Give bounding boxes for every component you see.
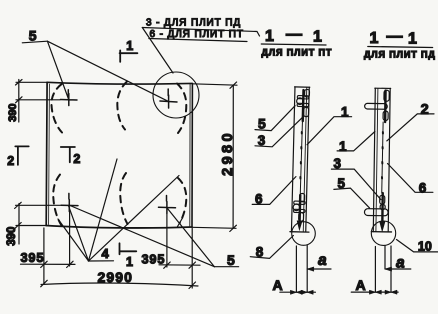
section 1 anchor rod — [302, 90, 305, 121]
leader 5 to top-left loop — [47, 41, 68, 99]
section header 1-1 PD underline — [368, 47, 433, 48]
fan leader long right — [89, 176, 180, 262]
svg-text:1: 1 — [126, 39, 133, 53]
section 1 top loop bar 1 — [297, 96, 308, 99]
section 2 detail circle — [371, 221, 395, 245]
dim 2980 line — [232, 85, 234, 228]
dashed arc bottom-right — [178, 178, 186, 224]
plate right edge inner — [189, 84, 191, 226]
section 2 left inner edge — [376, 89, 378, 232]
extension line bottom-right to 2980 — [192, 227, 236, 228]
svg-text:5: 5 — [227, 252, 235, 268]
section 1 bottom loop hook lower — [299, 213, 304, 222]
label 5 right underline — [214, 266, 238, 268]
loop mark cross bottom-right — [159, 196, 176, 214]
svg-text:5: 5 — [258, 116, 266, 132]
dim 395 left line — [21, 263, 76, 265]
section 2 rod arrow — [380, 221, 385, 231]
svg-text:5: 5 — [29, 28, 37, 44]
fan leader short left — [58, 219, 89, 261]
dashed arc bottom-center — [120, 173, 127, 224]
svg-text:2: 2 — [7, 154, 14, 168]
svg-text:А: А — [356, 277, 366, 293]
leader 5 to top-right loop — [47, 41, 168, 101]
dashed arc bottom-left — [53, 175, 62, 228]
annotation underline 1 — [142, 28, 259, 37]
section 2 bottom hairpin loop — [364, 209, 388, 216]
section 2 bottom edge — [371, 231, 391, 233]
svg-text:2: 2 — [73, 152, 80, 166]
leader bottom-left loop to label 5 right — [70, 206, 214, 267]
svg-text:6: 6 — [419, 180, 427, 195]
dim 390 top tick marks — [16, 80, 23, 103]
loop mark cross top-left — [61, 90, 78, 106]
section 1 top loop bar 2 — [297, 103, 308, 106]
dim 2990 ticks — [41, 280, 196, 288]
detail circle around top-right loop — [153, 72, 199, 118]
dim 390 bottom-left dim line — [18, 204, 20, 245]
extension line below bottom-right loop — [166, 214, 168, 267]
svg-text:—: — — [387, 28, 403, 45]
plate left edge outer — [45, 82, 48, 225]
section 2 dim a line — [385, 268, 411, 270]
section 1 extension left below — [295, 246, 297, 292]
section 1 rod dots — [300, 132, 302, 178]
dim 2990 line — [41, 283, 198, 286]
section 1 dim A arrows — [290, 290, 302, 294]
section 1 right outer edge — [306, 87, 310, 232]
svg-text:1: 1 — [339, 139, 347, 154]
section 2 extension left below — [374, 247, 376, 293]
loop mark cross top-right — [160, 89, 177, 108]
section 2 top hairpin loop — [365, 103, 388, 109]
section 1 top loop hook upper — [305, 89, 310, 97]
section 1 strip — [290, 87, 313, 232]
svg-text:1: 1 — [370, 30, 379, 47]
dim 395 right ticks — [164, 262, 196, 268]
svg-text:a: a — [396, 255, 405, 272]
plate right edge outer — [191, 83, 193, 227]
section mark 1 top — [120, 50, 138, 62]
svg-text:395: 395 — [142, 252, 166, 267]
plate left edge inner — [48, 84, 51, 225]
dim 390 bottom tick marks — [15, 202, 22, 228]
section 2 rod dots — [382, 132, 383, 179]
annotation underline 2 — [149, 39, 247, 42]
fan underline — [89, 260, 114, 262]
section 2 bottom hook lower — [380, 204, 385, 209]
section 2 top cap — [375, 87, 391, 89]
fan leader to center — [89, 159, 118, 261]
annotation leader to circle — [142, 28, 173, 74]
section 2 dim a arrow — [385, 267, 392, 271]
svg-text:1: 1 — [265, 28, 274, 45]
svg-text:1: 1 — [126, 255, 133, 269]
section 2 top hook lower — [383, 111, 388, 120]
svg-text:395: 395 — [21, 250, 45, 265]
svg-text:390: 390 — [6, 227, 18, 246]
svg-text:ДЛЯ ПЛИТ ПД: ДЛЯ ПЛИТ ПД — [364, 49, 436, 59]
section 2 dim A arrows — [369, 290, 381, 294]
section 1 bottom loop bar 1 — [294, 201, 305, 204]
section 2 right edge — [388, 88, 390, 231]
section 1 extension right below — [306, 246, 308, 293]
section 1 bottom edge — [290, 231, 309, 233]
section 1 top loop hook lower — [304, 107, 309, 116]
section 2 anchor rod — [384, 91, 387, 122]
dim 2980 ticks — [230, 82, 237, 232]
svg-text:a: a — [318, 252, 327, 269]
svg-text:—: — — [286, 26, 302, 43]
svg-text:3 - ДЛЯ ПЛИТ ПД: 3 - ДЛЯ ПЛИТ ПД — [146, 18, 241, 29]
plate bottom edge — [46, 226, 192, 228]
section 1 top cap — [295, 86, 310, 88]
svg-text:1: 1 — [408, 31, 417, 48]
section 2 bottom hook upper — [380, 195, 385, 204]
section 2 strip — [363, 88, 394, 232]
section mark 1 bottom — [120, 243, 137, 254]
section mark 2 left — [15, 146, 28, 165]
section 1 bottom loop hook upper — [300, 193, 305, 201]
svg-text:2990: 2990 — [98, 269, 134, 285]
section 2 dim A line — [351, 291, 398, 293]
plate top edge — [47, 82, 192, 84]
svg-text:2: 2 — [421, 102, 429, 118]
leader bottom-right loop to label 5 right — [168, 209, 215, 267]
dashed arc top-center — [117, 82, 127, 130]
extension line below bottom-left loop — [69, 212, 71, 266]
dim 395 right line — [159, 264, 200, 266]
loop mark cross bottom-left — [61, 193, 78, 211]
svg-text:А: А — [273, 277, 283, 293]
section 1 rod arrow — [297, 221, 302, 230]
dim 390 top-left dim line — [18, 80, 20, 123]
svg-text:1: 1 — [313, 29, 322, 46]
dashed arc top-right — [177, 84, 186, 134]
extension line below plate left corner — [43, 228, 45, 284]
dim 390 top-left extension lines — [16, 82, 60, 100]
label 5 underline — [22, 41, 47, 43]
svg-text:1: 1 — [341, 105, 349, 120]
svg-text:ДЛЯ ПЛИТ ПТ: ДЛЯ ПЛИТ ПТ — [262, 47, 333, 57]
section 1 dim A line — [280, 291, 316, 293]
section 2 rod extension below — [384, 246, 386, 269]
section header 1-1 PT underline — [261, 44, 326, 45]
section 1 bottom loop bar 2 — [294, 209, 305, 212]
section 1 dim a arrow — [307, 267, 314, 271]
section 2 top hook — [384, 90, 389, 101]
section 1 right inner edge — [303, 88, 307, 232]
section 2 left outer edge — [373, 88, 375, 231]
section 1 bottom loop eye — [293, 204, 300, 211]
dim 395 left ticks — [41, 261, 73, 267]
section 2 extension right below — [390, 246, 392, 292]
extension line below plate right corner — [191, 229, 193, 289]
svg-text:2980: 2980 — [220, 130, 236, 176]
section 1 dim a line — [307, 268, 331, 270]
section 1 top loop eye — [297, 98, 304, 105]
section 1 left edge — [291, 87, 295, 232]
section 1 detail circle — [292, 222, 316, 246]
dim 390 bottom-left extension lines — [16, 205, 61, 225]
fan leader to bottom-left loop — [69, 206, 89, 261]
dashed arc top-left — [51, 84, 62, 132]
svg-text:390: 390 — [7, 103, 19, 121]
section mark 2 inner — [61, 147, 75, 162]
extension line top-right to 2980 — [192, 84, 237, 85]
